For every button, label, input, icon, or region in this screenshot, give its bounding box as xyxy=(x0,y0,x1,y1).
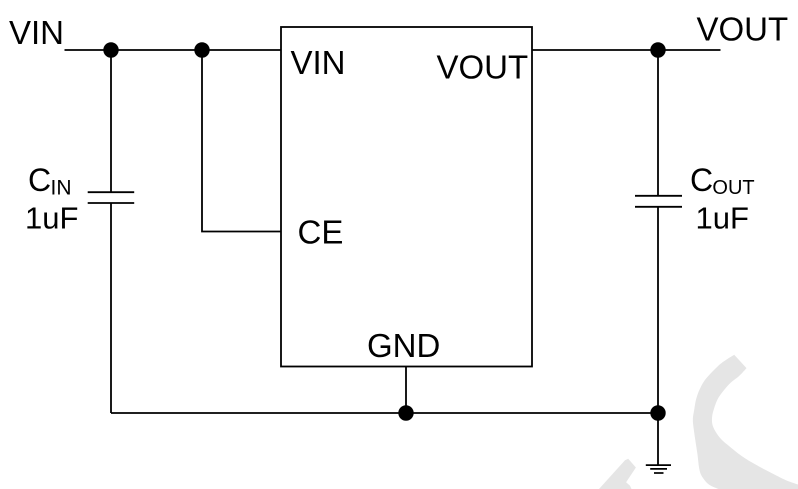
wire node E to ground symbol xyxy=(657,413,659,465)
ground rail wire xyxy=(111,412,658,414)
svg-text:1uF: 1uF xyxy=(25,201,78,236)
node E junction xyxy=(650,405,665,420)
capacitor C_IN plates xyxy=(88,192,135,203)
wire IC VOUT pin to node C xyxy=(532,49,658,51)
svg-text:IN: IN xyxy=(51,177,72,200)
IC U1 (regulator body) xyxy=(281,27,532,367)
svg-text:C: C xyxy=(690,162,713,198)
svg-text:VIN: VIN xyxy=(9,14,64,51)
svg-text:1uF: 1uF xyxy=(696,201,749,236)
node C junction xyxy=(650,42,665,57)
svg-text:VOUT: VOUT xyxy=(697,11,789,48)
node A junction xyxy=(103,42,118,57)
svg-text:GND: GND xyxy=(367,327,440,364)
svg-text:CE: CE xyxy=(298,214,344,251)
wire node A to CIN top xyxy=(110,50,112,192)
label C_OUT value xyxy=(690,162,755,236)
ground symbol xyxy=(646,465,671,473)
wire CIN bottom to ground rail xyxy=(110,203,112,413)
wire node B to IC VIN pin xyxy=(202,49,281,51)
wire node C to VOUT terminal xyxy=(658,49,721,51)
wire node B to CE pin xyxy=(202,50,281,232)
wire GND pin to node D xyxy=(405,367,407,414)
wire COUT bottom to node E xyxy=(657,207,659,413)
wire VIN terminal to node A xyxy=(65,49,112,51)
wire node A to node B xyxy=(111,49,202,51)
svg-text:C: C xyxy=(28,162,51,198)
watermark xyxy=(599,355,798,489)
capacitor C_OUT plates xyxy=(635,196,682,207)
svg-text:VOUT: VOUT xyxy=(437,49,529,86)
node B junction xyxy=(194,42,209,57)
svg-text:OUT: OUT xyxy=(712,177,754,199)
wire node C to COUT top xyxy=(657,50,659,196)
node D junction xyxy=(398,405,413,420)
label C_IN value xyxy=(25,162,78,236)
svg-text:VIN: VIN xyxy=(291,44,346,81)
